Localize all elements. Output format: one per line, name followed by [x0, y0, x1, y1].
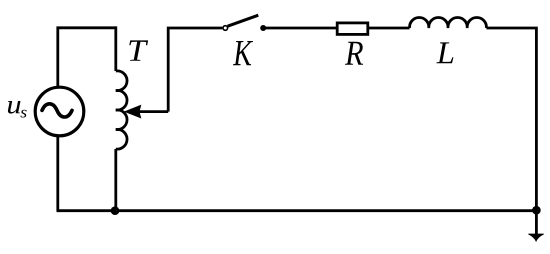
wire source bottom down: [56, 136, 59, 211]
switch K blade: [228, 15, 259, 26]
ground arrow: [528, 234, 543, 241]
label R: [345, 42, 363, 65]
transformer T coil: [116, 71, 127, 149]
wire top-left corner down to coil: [114, 26, 117, 71]
junction dot at coil bottom: [111, 206, 120, 215]
label u_s: [8, 101, 21, 114]
wire inductor to top-right corner and down: [486, 28, 536, 211]
inductor L: [410, 17, 487, 28]
ac source us: [35, 87, 84, 136]
label L: [436, 42, 453, 63]
bottom wire: [57, 209, 537, 212]
resistor R: [337, 23, 368, 35]
switch K pivot: [223, 26, 228, 31]
sine wave inside source: [42, 104, 72, 117]
wire switch branch vertical: [168, 28, 222, 112]
ground stem: [535, 211, 538, 238]
label K: [233, 41, 253, 65]
wire switch to resistor: [263, 27, 336, 30]
junction dot at ground: [532, 206, 541, 215]
wire coil bottom to bottom junction: [114, 149, 117, 211]
label T: [129, 40, 148, 60]
switch K right contact dot: [260, 25, 266, 31]
tap arrow into coil: [138, 110, 169, 113]
wire resistor to inductor: [369, 27, 410, 30]
wire source top to top-left corner: [58, 28, 116, 88]
